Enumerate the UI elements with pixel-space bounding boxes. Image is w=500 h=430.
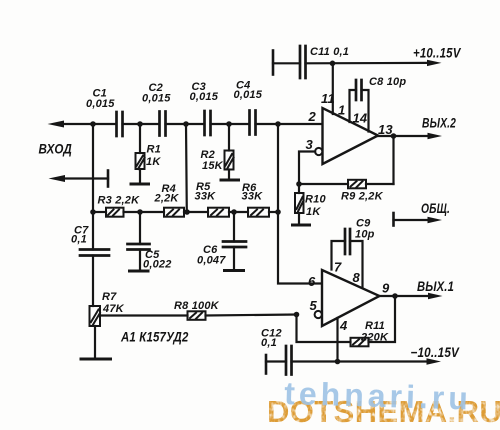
capacitor C2 [158,112,161,136]
node R2 top [226,121,232,127]
svg-text:1K: 1K [146,156,161,168]
node input [90,121,96,127]
svg-text:8: 8 [353,270,361,285]
wire mid column [185,124,188,212]
node pin5 [294,312,300,318]
node pin4 bottom [335,359,341,365]
svg-text:14: 14 [353,111,368,126]
svg-text:15K: 15K [202,160,224,172]
ground R7 [81,358,111,361]
svg-text:R10: R10 [305,194,326,206]
capacitor C12 [285,346,288,375]
svg-text:11: 11 [321,91,335,106]
svg-text:R3 2,2K: R3 2,2K [98,195,141,207]
op-amp U1 [323,108,379,164]
resistor R8 [188,311,206,320]
node R1 top [137,121,143,127]
op-amp U2 [322,270,380,326]
node out1 [392,293,398,299]
node R10 top [296,181,302,187]
wire rail2 d [229,211,248,213]
resistor R4 [164,208,184,217]
wire out2 op-amp [380,295,430,297]
svg-text:6: 6 [308,274,316,289]
node mid column top [183,121,189,127]
resistor R10 [298,184,300,193]
svg-text:−10..15V: −10..15V [411,345,460,360]
wire R8 to pin5 [206,315,297,316]
capacitor C11 [299,46,302,78]
node pin11 top [330,61,336,67]
ground R10 [293,224,310,227]
pin 11 wire [332,63,334,114]
pin 8 bracket [350,241,363,287]
node C6 top [231,209,237,215]
svg-text:7: 7 [334,260,342,275]
wire input top [60,123,93,125]
svg-text:0,015: 0,015 [86,98,115,110]
pin 7 bracket [332,241,346,270]
svg-text:ВЫХ.1: ВЫХ.1 [417,279,454,294]
capacitor C6 [233,212,235,242]
capacitor C1 [115,112,118,136]
svg-text:C11 0,1: C11 0,1 [310,46,349,58]
pin 4 wire [336,318,338,362]
resistor R7 [90,306,101,326]
terminal bar C12 [265,355,268,374]
svg-text:R8 100K: R8 100K [174,300,220,312]
terminal bar C11 [272,51,275,75]
resistor R9 [348,180,366,189]
svg-text:0,022: 0,022 [143,259,172,271]
arrow ОБЩ [428,217,443,223]
svg-text:47K: 47K [102,303,125,315]
svg-text:+10..15V: +10..15V [413,46,461,61]
svg-text:ВХОД: ВХОД [39,142,73,157]
capacitor C3 [203,111,206,135]
svg-text:C8 10p: C8 10p [369,76,406,88]
svg-text:R7: R7 [102,291,117,303]
svg-text:2: 2 [308,109,317,124]
svg-text:tehnari.ru: tehnari.ru [284,375,473,417]
wire top rail e to pin2 [256,123,323,125]
wire power rail [306,62,430,65]
svg-text:2,2K: 2,2K [154,193,180,205]
svg-text:0,015: 0,015 [234,89,263,101]
pin 14 bracket [362,90,369,132]
pin 5 circle [315,311,322,318]
wire feedback 2 [297,315,351,343]
svg-text:R9 2,2K: R9 2,2K [341,191,384,203]
resistor R2 [228,124,230,151]
node C5 top [137,209,143,215]
svg-text:0,015: 0,015 [190,91,219,103]
resistor R3 [106,208,124,217]
svg-text:1: 1 [338,103,345,118]
wire to C11 [273,62,300,64]
ground C6 [225,269,244,272]
input arrow top [48,121,65,128]
svg-text:220K: 220K [360,332,389,344]
svg-text:10p: 10p [355,229,375,241]
wire input column [92,124,94,212]
arrow ВЫХ.1 [428,293,443,299]
ground C5 [130,270,149,273]
wire out1 op-amp [378,135,429,137]
ground R1 [131,183,149,186]
input arrow lower [49,175,66,182]
wire top rail c [166,123,205,125]
wire feedback down [392,136,394,184]
wire top rail b [123,123,160,125]
terminal ОБЩ [392,213,395,226]
pin 1 bracket [350,90,357,122]
wire pin3 [299,152,315,185]
wire -10 rail [292,360,429,362]
svg-text:0,015: 0,015 [142,93,171,105]
capacitor C4 [248,111,251,135]
arrow +10..15V [427,60,442,66]
svg-text:5: 5 [310,298,318,313]
svg-text:4: 4 [339,318,348,333]
wire rail2 b [124,211,165,213]
svg-text:0,1: 0,1 [261,337,277,349]
wire top rail d [211,123,250,125]
terminal bar input lower [107,171,110,187]
wire input lower [61,177,108,179]
svg-text:0,1: 0,1 [71,234,87,246]
svg-text:A1 К157УД2: A1 К157УД2 [120,330,189,345]
capacitor C5 [139,212,141,244]
svg-text:ВЫХ.2: ВЫХ.2 [422,116,456,131]
svg-text:1K: 1K [306,206,321,218]
svg-text:ОБЩ.: ОБЩ. [421,201,450,216]
svg-text:3: 3 [306,137,314,152]
arrow -10..15V [427,358,442,364]
capacitor C8 [355,80,358,100]
wire R9 row [299,183,348,185]
wire top rail a [93,123,116,125]
wire R8 row [100,314,188,316]
arrow ВЫХ.2 [428,133,443,139]
svg-text:9: 9 [382,281,390,296]
node rail2 left [90,209,96,215]
resistor R11 [351,338,369,347]
ground R2 [221,179,239,182]
capacitor C9 [344,229,347,254]
svg-text:33K: 33K [242,191,264,203]
svg-text:33K: 33K [195,191,217,203]
pin 3 circle [315,148,322,155]
svg-text:R1: R1 [147,144,161,156]
capacitor C7 [92,212,94,250]
wire right column to pin6 [278,124,322,284]
svg-text:R11: R11 [365,320,385,332]
resistor R5 [208,208,229,217]
node right column top [275,121,281,127]
svg-text:0,047: 0,047 [197,255,226,267]
node mid column bottom [184,209,190,215]
node right column mid [275,209,281,215]
wire rail2 c [184,211,208,213]
node out2 [391,133,397,139]
wire rail2 e [269,211,278,213]
resistor R6 [248,208,269,217]
resistor R1 [139,124,141,153]
wire rail2 a [93,211,106,213]
